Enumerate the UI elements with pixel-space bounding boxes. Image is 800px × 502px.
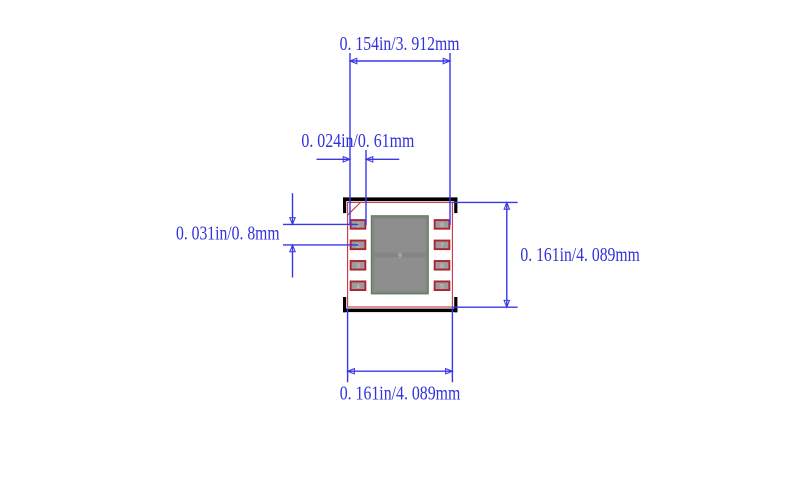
courtyard corner stub top-left xyxy=(343,197,346,213)
dimension 0.024in/0.61mm right leader line xyxy=(366,158,399,160)
pad 8 xyxy=(434,219,451,230)
svg-text:0. 161in/4. 089mm: 0. 161in/4. 089mm xyxy=(520,245,639,266)
pad 7 xyxy=(434,240,451,251)
pin-1 chamfer diagonal xyxy=(348,203,360,215)
svg-text:6: 6 xyxy=(440,263,444,270)
dimension 0.031in/0.8mm leader to pad 1 xyxy=(283,223,358,225)
courtyard corner stub bottom-right xyxy=(454,297,457,312)
dimension right 0.161in/4.089mm extension line bottom xyxy=(453,306,518,308)
pad 6 xyxy=(434,260,451,271)
dimension bottom 0.161in/4.089mm right arrowhead xyxy=(446,369,453,374)
courtyard corner stub bottom-left xyxy=(343,297,346,312)
dimension 0.024in/0.61mm extension line right xyxy=(365,150,367,225)
svg-text:4: 4 xyxy=(356,283,360,290)
dimension 0.024in/0.61mm left leader line xyxy=(317,158,351,160)
svg-text:1: 1 xyxy=(356,222,360,229)
dimension 0.031in/0.8mm down arrowhead xyxy=(290,218,295,225)
svg-text:7: 7 xyxy=(440,243,444,250)
svg-text:8: 8 xyxy=(440,222,444,229)
package courtyard top bar (black) xyxy=(343,197,457,201)
svg-text:0. 154in/3. 912mm: 0. 154in/3. 912mm xyxy=(340,34,460,55)
pad 5 xyxy=(434,281,451,292)
dimension 0.024in/0.61mm left arrowhead xyxy=(343,157,350,162)
dimension 0.154in/3.912mm extension line left xyxy=(349,53,351,225)
svg-text:0. 031in/0. 8mm: 0. 031in/0. 8mm xyxy=(176,224,280,245)
svg-text:2: 2 xyxy=(356,243,360,250)
dimension bottom 0.161in/4.089mm extension line left xyxy=(347,308,349,382)
dimension 0.024in/0.61mm right arrowhead xyxy=(366,157,373,162)
dimension bottom 0.161in/4.089mm line xyxy=(348,370,453,372)
svg-text:5: 5 xyxy=(440,283,444,290)
dimension right 0.161in/4.089mm bottom arrowhead xyxy=(504,300,509,307)
pad 3 xyxy=(350,260,367,271)
dimension 0.154in/3.912mm extension line right xyxy=(449,53,451,225)
courtyard corner stub top-right xyxy=(454,197,457,213)
dimension 0.031in/0.8mm vertical line lower xyxy=(292,245,294,278)
dimension bottom 0.161in/4.089mm left arrowhead xyxy=(348,369,355,374)
dimension 0.031in/0.8mm up arrowhead xyxy=(290,245,295,252)
package body outline (red) xyxy=(348,202,453,307)
pad 4 xyxy=(350,281,367,292)
dimension bottom 0.161in/4.089mm extension line right xyxy=(451,308,453,383)
svg-text:0. 161in/4. 089mm: 0. 161in/4. 089mm xyxy=(340,383,461,404)
pad 1 xyxy=(350,219,367,230)
thermal pad 9 xyxy=(371,215,429,294)
dimension 0.031in/0.8mm leader to pad 2 xyxy=(283,244,359,246)
dimension right 0.161in/4.089mm extension line top xyxy=(453,201,518,203)
package courtyard bottom bar (black) xyxy=(343,309,457,313)
dimension 0.031in/0.8mm vertical line upper xyxy=(292,193,294,224)
svg-text:9: 9 xyxy=(398,252,402,259)
pad 2 xyxy=(350,240,367,251)
dimension 0.154in/3.912mm right arrowhead xyxy=(443,58,450,63)
dimension right 0.161in/4.089mm top arrowhead xyxy=(504,202,509,209)
dimension right 0.161in/4.089mm line xyxy=(506,202,508,307)
svg-text:0. 024in/0. 61mm: 0. 024in/0. 61mm xyxy=(301,131,414,152)
dimension 0.154in/3.912mm left arrowhead xyxy=(350,58,357,63)
svg-text:3: 3 xyxy=(356,263,360,270)
dimension 0.154in/3.912mm line xyxy=(350,60,450,62)
